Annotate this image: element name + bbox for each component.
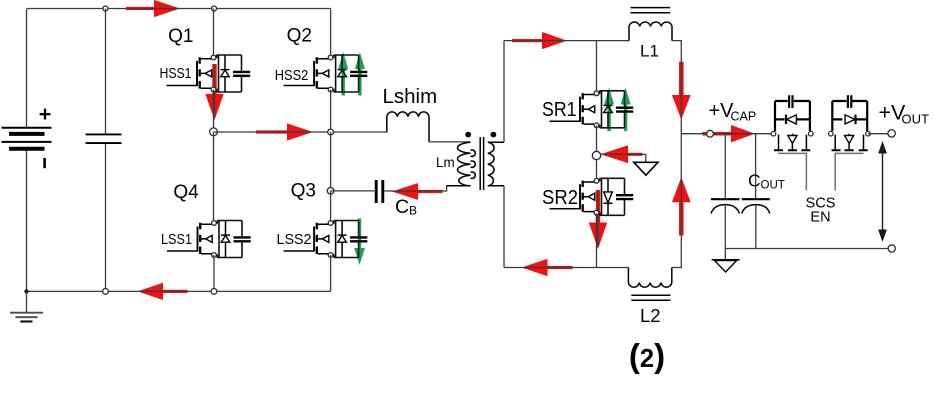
label Q3 bbox=[291, 180, 316, 201]
wire SR2 source lead bbox=[596, 213, 598, 267]
ground SR midpoint bbox=[634, 162, 658, 175]
transistor Q1 bbox=[167, 55, 251, 92]
label HSS2 bbox=[275, 68, 309, 84]
wire top rail bbox=[27, 8, 331, 10]
node top input cap junction bbox=[103, 6, 108, 11]
wire secondary bottom rail bbox=[504, 267, 628, 269]
wire Q2 drain lead bbox=[330, 9, 332, 56]
label Q2 bbox=[287, 26, 312, 47]
svg-text:CAP: CAP bbox=[731, 110, 757, 124]
wire COUT cap1 bottom lead bbox=[724, 205, 726, 249]
wire CB left segment bbox=[331, 190, 375, 192]
svg-text:HSS1: HSS1 bbox=[160, 66, 192, 82]
wire COUT cap1 top lead bbox=[724, 134, 726, 198]
label SR2 bbox=[542, 187, 578, 209]
current arrow (red) SR mid node bbox=[601, 145, 643, 163]
label Q1 bbox=[168, 26, 193, 47]
svg-text:C: C bbox=[748, 171, 761, 191]
label Lshim bbox=[383, 85, 438, 108]
current arrow (red) secondary bottom rail bbox=[522, 259, 573, 276]
current arrow (red) top rail bbox=[126, 0, 180, 17]
label +VOUT bbox=[879, 101, 930, 127]
node mid rail Q2/Q3 junction bbox=[328, 129, 334, 135]
node SR midpoint bbox=[592, 151, 600, 159]
label +VCAP bbox=[709, 100, 757, 124]
ground output bbox=[712, 249, 740, 273]
transformer dot primary bbox=[465, 132, 471, 138]
current arrow (red) secondary top rail bbox=[512, 32, 567, 49]
transformer T1 secondary bbox=[488, 142, 504, 186]
wire output bottom rail bbox=[725, 248, 888, 250]
battery V_in bbox=[2, 102, 52, 168]
wire secondary top vertical bbox=[503, 41, 505, 143]
current arrow (green) SR1 capacitor bbox=[621, 88, 631, 132]
svg-text:OUT: OUT bbox=[761, 180, 785, 192]
svg-text:Q2: Q2 bbox=[287, 26, 312, 47]
inductor L1 bbox=[629, 8, 672, 41]
switch SCS FET left bbox=[771, 95, 813, 190]
current arrow (red) through SR2 bbox=[589, 190, 607, 249]
transformer T1 primary (Lm) bbox=[447, 142, 476, 186]
wire Q4 source lead bbox=[213, 255, 215, 291]
svg-text:LSS2: LSS2 bbox=[277, 232, 312, 248]
current arrow (green) Q2 capacitor bbox=[355, 52, 365, 96]
svg-text:OUT: OUT bbox=[902, 112, 930, 127]
capacitor CB bbox=[376, 180, 383, 203]
svg-text:C: C bbox=[395, 196, 409, 218]
current arrow (green) Q3 capacitor bbox=[354, 218, 365, 265]
current arrow (green) Q2 body diode bbox=[338, 52, 348, 96]
transformer dot secondary bbox=[491, 132, 497, 138]
transistor SR1 bbox=[550, 91, 634, 128]
wire COUT cap2 bottom lead bbox=[755, 205, 757, 249]
svg-text:Lm: Lm bbox=[436, 155, 455, 170]
label SR1 bbox=[542, 99, 577, 121]
wire input cap top lead bbox=[105, 9, 107, 134]
node phase A (Q1/Q4 midpoint) bbox=[210, 128, 218, 136]
current arrow (green) SR1 body diode bbox=[604, 88, 614, 132]
wire to +VOUT terminal bbox=[868, 133, 888, 135]
transistor SR2 bbox=[550, 178, 634, 215]
junction dot battery/ground bbox=[24, 289, 28, 293]
label LSS1 bbox=[161, 232, 192, 248]
inductor L2 bbox=[628, 268, 671, 301]
wire Q1 drain lead bbox=[213, 9, 215, 56]
label HSS1 bbox=[160, 66, 192, 82]
wire Lshim to transformer bbox=[429, 141, 470, 143]
capacitor COUT 1 bbox=[711, 199, 739, 213]
svg-text:SR2: SR2 bbox=[542, 187, 578, 209]
ground input (3-bar) bbox=[10, 291, 43, 321]
label SCS EN bbox=[806, 196, 836, 226]
label equation number (2) bbox=[629, 337, 665, 374]
node bottom Q4 junction bbox=[211, 289, 217, 295]
label LSS2 bbox=[277, 232, 312, 248]
current arrow (red) right rail up bbox=[672, 177, 691, 235]
wire SR column top bbox=[596, 41, 598, 91]
capacitor input bbox=[86, 134, 122, 143]
current arrow (red) CB wire bbox=[392, 183, 443, 200]
switch SCS FET right bbox=[829, 95, 871, 190]
output voltage span arrow bbox=[878, 141, 887, 242]
wire Q3 drain lead bbox=[330, 191, 332, 221]
wire +VCAP rail bbox=[681, 133, 773, 135]
wire L1 to right rail corner bbox=[672, 41, 682, 268]
inductor Lshim bbox=[387, 112, 429, 142]
svg-text:LSS1: LSS1 bbox=[161, 232, 192, 248]
svg-text:L1: L1 bbox=[640, 42, 659, 61]
node output return terminal bbox=[888, 245, 895, 252]
transistor Q3 bbox=[284, 221, 368, 258]
transistor Q2 bbox=[284, 55, 368, 92]
node bottom input cap junction bbox=[103, 289, 109, 295]
node +VOUT terminal bbox=[888, 130, 895, 137]
wire secondary bottom vertical bbox=[503, 186, 505, 268]
wire battery bottom lead bbox=[26, 151, 28, 292]
svg-text:Q4: Q4 bbox=[173, 182, 199, 203]
label L1 bbox=[640, 42, 659, 61]
svg-text:EN: EN bbox=[810, 210, 830, 226]
svg-text:Q3: Q3 bbox=[291, 180, 316, 201]
wire SR2 drain lead bbox=[596, 160, 598, 179]
svg-text:+: + bbox=[39, 102, 52, 126]
label Lm bbox=[436, 155, 455, 170]
wire SR1 source to mid node bbox=[596, 125, 598, 151]
current arrow (red) through Q1 bbox=[205, 64, 223, 120]
wire bottom rail bbox=[27, 290, 331, 292]
wire CB right segment bbox=[384, 186, 446, 191]
svg-text:L2: L2 bbox=[640, 305, 661, 326]
capacitor COUT 2 bbox=[742, 199, 770, 213]
svg-text:HSS2: HSS2 bbox=[275, 68, 309, 84]
wire Q3 source lead bbox=[330, 255, 332, 291]
wire Q2 source to mid rail bbox=[330, 90, 332, 133]
wire Q2/Q3 column bbox=[330, 132, 332, 191]
current arrow (red) +VCAP rail bbox=[703, 125, 756, 142]
transistor Q4 bbox=[167, 221, 251, 258]
current arrow (red) bottom rail bbox=[137, 283, 187, 300]
wire battery top lead bbox=[26, 9, 28, 128]
node top Q1 junction bbox=[212, 6, 217, 11]
wire COUT cap2 top lead bbox=[755, 134, 757, 198]
svg-text:Q1: Q1 bbox=[168, 26, 193, 47]
label COUT bbox=[748, 171, 785, 192]
wire SR mid node to ground bbox=[600, 154, 646, 162]
svg-text:SR1: SR1 bbox=[542, 99, 577, 121]
label CB bbox=[395, 196, 417, 218]
wire mid rail bbox=[214, 131, 388, 133]
transformer core bbox=[480, 137, 483, 190]
label Q4 bbox=[173, 182, 199, 203]
svg-text:B: B bbox=[409, 204, 417, 218]
label L2 bbox=[640, 305, 661, 326]
wire Q4 drain lead bbox=[213, 132, 215, 221]
wire secondary top rail bbox=[504, 40, 629, 42]
current arrow (red) right rail down bbox=[672, 62, 691, 120]
current arrow (red) mid rail bbox=[256, 123, 313, 140]
node +VCAP terminal bbox=[707, 130, 714, 137]
wire input cap bottom lead bbox=[105, 144, 107, 291]
node Q3 drain / CB junction bbox=[327, 188, 334, 195]
svg-text:Lshim: Lshim bbox=[383, 85, 438, 108]
wire Q1 source to mid node bbox=[213, 90, 215, 132]
